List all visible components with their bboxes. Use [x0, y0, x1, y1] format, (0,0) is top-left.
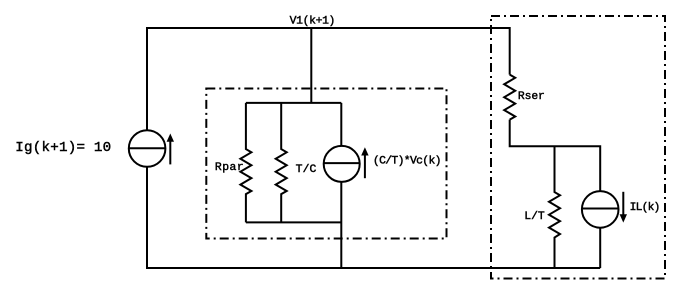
svg-text:IL(k): IL(k): [630, 202, 661, 214]
current source (C/T)*Vc(k): [324, 146, 360, 182]
arrow Ig up: [169, 141, 171, 165]
wire top rail with left drop and right drop: [147, 28, 510, 130]
arrowhead Vc: [361, 147, 368, 155]
arrow IL down: [622, 192, 624, 216]
svg-text:L/T: L/T: [524, 211, 545, 223]
svg-text:(C/T)*Vc(k): (C/T)*Vc(k): [373, 155, 442, 167]
wire to source U2 top: [340, 103, 342, 146]
wire middle subcircuit bottom: [246, 221, 341, 223]
svg-text:Ig(k+1)= 10: Ig(k+1)= 10: [15, 140, 111, 156]
resistor Rser: [504, 75, 515, 120]
dash-dot box C-model: [206, 89, 446, 239]
wire from source U2 bottom to rail: [340, 182, 342, 268]
svg-text:V1(k+1): V1(k+1): [290, 16, 336, 28]
svg-text:T/C: T/C: [296, 164, 317, 176]
wire middle subcircuit top: [246, 102, 341, 104]
dash-dot box L-model: [491, 16, 665, 279]
wire Rser to node: [510, 120, 601, 192]
current source IL: [582, 191, 619, 228]
current source Ig: [129, 130, 166, 167]
resistor Rpar: [240, 103, 251, 222]
node V1(k+1): [310, 28, 312, 103]
svg-text:Rser: Rser: [518, 91, 545, 103]
arrow (C/T)Vc up: [364, 155, 366, 179]
wire left bottom segment and bottom rail: [147, 167, 600, 268]
resistor T/C: [276, 103, 287, 222]
wire source IL bottom to rail: [599, 228, 601, 268]
svg-text:Rpar: Rpar: [215, 162, 244, 174]
resistor L/T: [549, 146, 560, 268]
arrowhead Ig: [167, 134, 174, 142]
arrowhead IL: [620, 214, 627, 222]
